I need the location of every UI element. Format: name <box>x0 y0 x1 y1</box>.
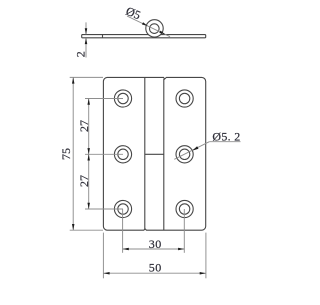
Ø5 leader arrowhead at far edge <box>159 31 165 35</box>
hole top-left inner <box>118 93 128 103</box>
50 dim line <box>103 272 205 274</box>
knuckle pin hole Ø5 circle <box>150 24 160 34</box>
Ø5 leader line <box>127 16 170 37</box>
Ø5.2 leader underline <box>209 141 240 143</box>
knuckle strip left line <box>144 77 146 229</box>
50 left extension line <box>102 233 104 279</box>
30 dim line <box>123 248 185 250</box>
svg-text:50: 50 <box>149 261 162 275</box>
27 arrow up at row1 <box>87 99 90 105</box>
hole bottom-right outer <box>176 200 193 217</box>
Ø5.2 leader diagonal <box>174 142 209 160</box>
30 arrow left <box>123 248 129 251</box>
thickness dim line upper segment <box>85 22 87 34</box>
row1 extension line <box>85 98 123 100</box>
front view outline <box>103 77 205 230</box>
hole mid-left inner <box>118 149 128 159</box>
knuckle split line <box>145 153 164 155</box>
hole top-right outer <box>176 90 193 107</box>
Ø5.2 arrowhead <box>192 146 198 150</box>
row3 extension line <box>85 208 123 210</box>
50 right extension line <box>205 233 207 279</box>
hole mid-right outer <box>176 146 193 163</box>
thickness arrow top <box>85 28 88 34</box>
27 arrow up at row2 <box>87 154 90 160</box>
50 arrow left <box>103 272 109 275</box>
27 dim line <box>88 99 90 210</box>
hole bottom-left outer <box>114 200 131 217</box>
svg-text:30: 30 <box>149 237 162 251</box>
Ø5 leader arrowhead at near edge <box>142 22 148 26</box>
svg-text:75: 75 <box>59 148 73 160</box>
svg-text:27: 27 <box>77 120 91 132</box>
27 arrow down at row3 <box>87 203 90 209</box>
hole top-left outer <box>114 90 131 107</box>
hole bottom-left inner <box>118 204 128 214</box>
30 arrow right <box>178 248 184 251</box>
30 left extension line <box>122 209 124 253</box>
side view plate outline <box>82 35 206 38</box>
thickness arrow bottom <box>85 38 88 44</box>
27 arrow down at row2 <box>87 148 90 154</box>
30 right extension line <box>183 209 185 253</box>
hole mid-right inner <box>179 149 189 159</box>
svg-text:27: 27 <box>77 175 91 187</box>
hole bottom-right inner <box>179 204 189 214</box>
thickness dim line lower segment <box>85 38 87 58</box>
75 bottom extension line <box>70 229 103 231</box>
knuckle strip right line <box>163 79 165 230</box>
75 arrow top <box>72 77 75 83</box>
knuckle outer circle <box>146 20 163 37</box>
75 dim line <box>72 77 74 230</box>
row2 extension line <box>85 153 123 155</box>
hole mid-left outer <box>114 146 131 163</box>
hole top-right inner <box>179 93 189 103</box>
75 arrow bottom <box>72 224 75 230</box>
svg-text:Ø5. 2: Ø5. 2 <box>212 130 240 144</box>
50 arrow right <box>200 272 206 275</box>
svg-text:2: 2 <box>73 51 87 57</box>
75 top extension line <box>70 76 103 78</box>
side view leaf joint line <box>102 35 104 38</box>
